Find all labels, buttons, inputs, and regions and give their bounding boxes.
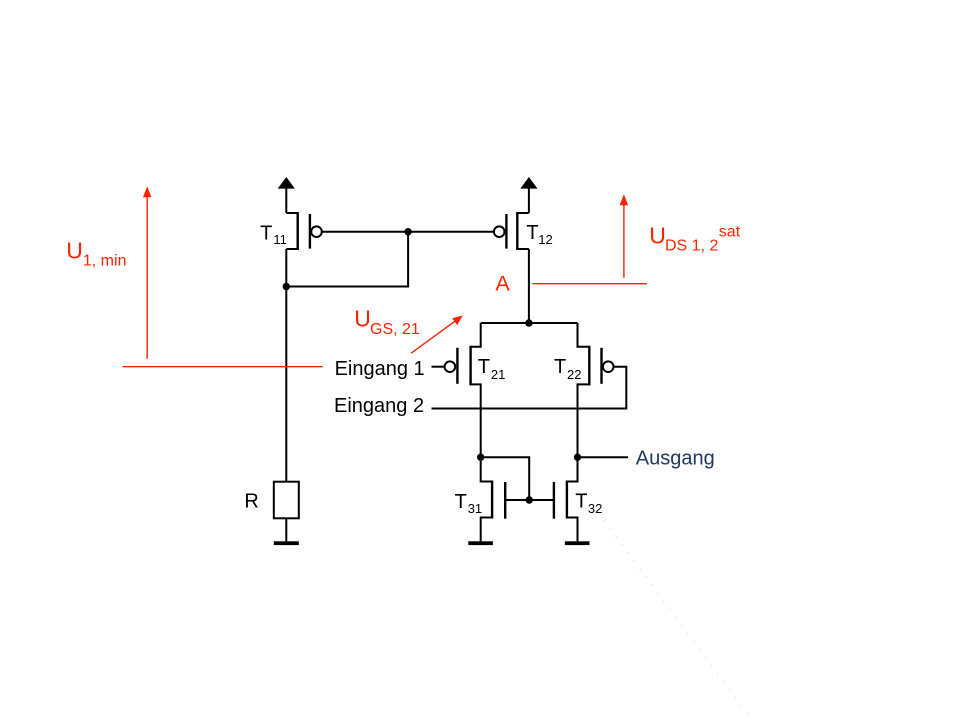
svg-text:12: 12 bbox=[538, 232, 552, 247]
svg-text:U: U bbox=[66, 238, 83, 264]
wire differential pair top rail bbox=[481, 322, 578, 324]
wire current mirror gate connection bbox=[481, 457, 530, 500]
node junction dot on gate rail bbox=[404, 228, 411, 235]
svg-text:T: T bbox=[260, 222, 272, 244]
label U1,min bbox=[66, 238, 126, 270]
wire resistor to ground bbox=[285, 518, 287, 541]
svg-text:T: T bbox=[575, 491, 587, 513]
transistor T32 (NMOS, gate left) bbox=[554, 457, 578, 541]
annotation arrow UDS sat bbox=[620, 194, 628, 278]
annotation level line U1min bbox=[123, 366, 323, 368]
transistor T11 (PMOS, diode-connected) bbox=[286, 212, 322, 250]
label T12 bbox=[526, 222, 552, 247]
svg-text:A: A bbox=[495, 271, 510, 295]
svg-text:32: 32 bbox=[588, 501, 602, 516]
svg-text:R: R bbox=[244, 490, 258, 512]
svg-text:sat: sat bbox=[719, 224, 741, 241]
label T32 bbox=[575, 491, 602, 517]
svg-text:T: T bbox=[455, 491, 467, 513]
node junction dot T22 drain bbox=[574, 454, 581, 461]
svg-text:U: U bbox=[649, 223, 666, 249]
wire Eingang 2 to T22 gate bbox=[432, 367, 627, 409]
wire T12 drain down to node A bbox=[528, 249, 530, 323]
svg-text:GS, 21: GS, 21 bbox=[370, 321, 420, 338]
annotation arrow UGS21 bbox=[411, 316, 463, 354]
svg-text:31: 31 bbox=[468, 501, 482, 516]
label T21 bbox=[478, 356, 506, 382]
svg-text:U: U bbox=[354, 306, 371, 332]
transistor T22 (PMOS, gate right) bbox=[578, 323, 614, 457]
ground below T32 bbox=[565, 541, 590, 545]
wire to Ausgang bbox=[578, 456, 629, 458]
label T31 bbox=[455, 491, 483, 516]
svg-text:1, min: 1, min bbox=[83, 253, 127, 270]
svg-text:T: T bbox=[554, 356, 566, 378]
supply arrow above T11 bbox=[278, 177, 295, 213]
transistor T31 (NMOS, gate right) bbox=[481, 457, 506, 541]
ground below T31 bbox=[468, 541, 493, 545]
annotation level line UDS bbox=[532, 283, 647, 285]
svg-text:22: 22 bbox=[567, 367, 581, 382]
svg-text:DS 1, 2: DS 1, 2 bbox=[665, 237, 718, 254]
label UDS1,2 sat bbox=[649, 223, 740, 255]
watermark faint dotted diagonal bbox=[598, 512, 752, 720]
annotation arrow U1min bbox=[143, 186, 151, 359]
node junction dot node A rail bbox=[525, 319, 532, 326]
wire gate rail T11 bubble to T12 bubble bbox=[322, 231, 494, 233]
svg-text:Ausgang: Ausgang bbox=[636, 447, 715, 469]
wire T11 drain down to resistor bbox=[285, 249, 287, 482]
supply arrow above T12 bbox=[520, 177, 537, 213]
transistor T12 (PMOS) bbox=[494, 212, 529, 250]
label UGS,21 bbox=[354, 306, 420, 338]
svg-text:Eingang 2: Eingang 2 bbox=[334, 395, 424, 417]
node junction dot on T11 drain bbox=[283, 283, 290, 290]
label T11 bbox=[260, 222, 287, 247]
svg-text:T: T bbox=[526, 222, 538, 244]
node junction dot mirror gates bbox=[526, 496, 533, 503]
wire Eingang 1 to T21 gate bbox=[432, 366, 446, 368]
svg-text:11: 11 bbox=[273, 232, 287, 247]
svg-text:T: T bbox=[478, 356, 490, 378]
wire diode connection loop bbox=[286, 232, 408, 287]
svg-text:21: 21 bbox=[491, 367, 505, 382]
wire mirror gate rail bbox=[505, 499, 554, 501]
label T22 bbox=[554, 356, 581, 382]
resistor R bbox=[274, 482, 299, 519]
node junction dot T21 drain bbox=[477, 454, 484, 461]
transistor T21 (PMOS, gate left) bbox=[445, 323, 481, 457]
ground below R bbox=[274, 541, 299, 545]
svg-text:Eingang 1: Eingang 1 bbox=[335, 358, 425, 380]
